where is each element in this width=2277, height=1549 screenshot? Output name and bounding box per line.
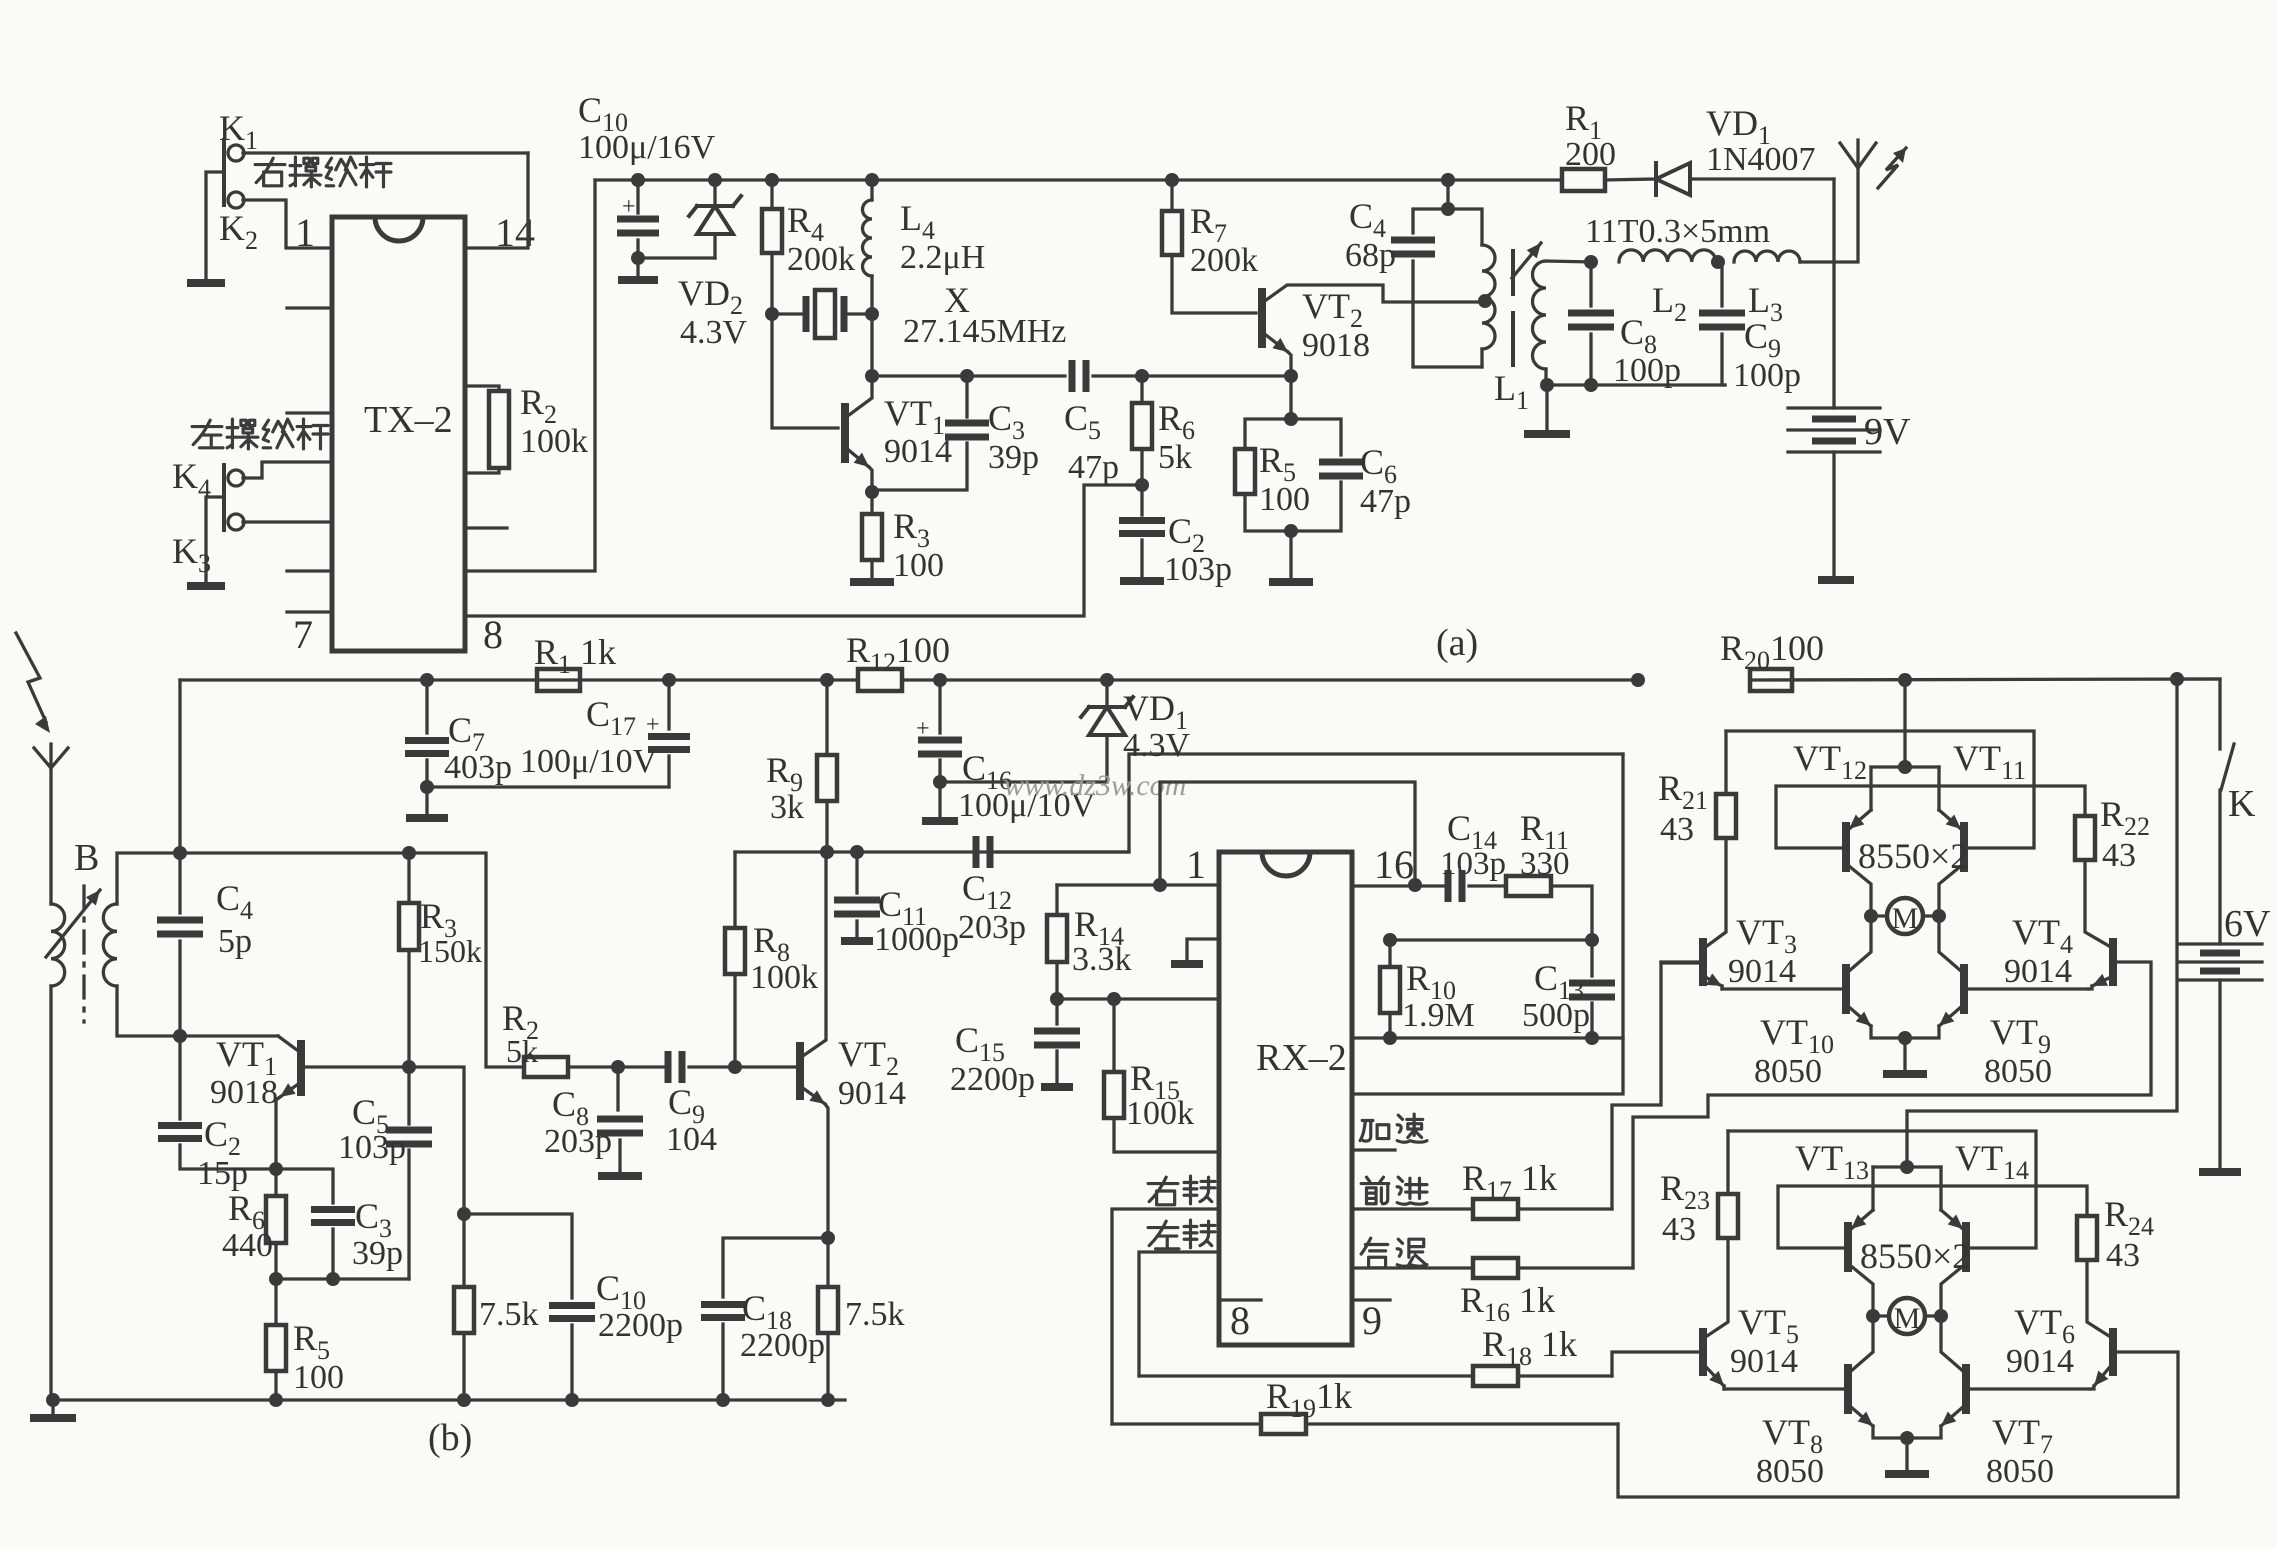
switch K [2177, 679, 2220, 749]
svg-text:R24: R24 [2104, 1194, 2154, 1241]
svg-text:C4: C4 [1349, 196, 1386, 243]
switch K1 [243, 151, 528, 154]
capacitor C2 15p (rx) [178, 1036, 181, 1119]
staircase R19 to VT6 base [1618, 1352, 2178, 1497]
transistor VT2 9018 (tx) [1258, 288, 1266, 348]
svg-text:1: 1 [295, 210, 315, 255]
resistor R17 1k + wire [1352, 1207, 1473, 1210]
loop wire right of RX-2 [1352, 754, 1623, 1094]
wire R14 bottom to RX-2 [1057, 997, 1219, 1000]
K1/K2 switch pole [222, 140, 226, 205]
svg-text:39p: 39p [352, 1235, 403, 1272]
svg-text:(b): (b) [428, 1417, 472, 1459]
svg-text:2.2μH: 2.2μH [900, 239, 985, 276]
resistor R6 5k [1135, 369, 1149, 383]
wire C7 to C17 bottom [427, 785, 669, 788]
TX-2 unused left pin stubs [287, 306, 332, 309]
transistor VT7 8050 [1962, 1364, 1970, 1414]
svg-text:+: + [916, 716, 930, 742]
ground (bridge) [1903, 1038, 1906, 1070]
wire C12 to RX-2 loop [997, 754, 1623, 852]
svg-text:103p: 103p [1164, 551, 1232, 588]
capacitor C11 1000p [850, 845, 864, 859]
transformer primary winding (osc coil) [1482, 245, 1495, 349]
svg-text:R2: R2 [520, 382, 557, 429]
svg-text:C4: C4 [216, 878, 253, 925]
svg-text:+: + [646, 712, 660, 738]
IC RX-2 [1219, 852, 1352, 1345]
svg-text:104: 104 [666, 1121, 717, 1158]
capacitor C6 47p [1291, 419, 1341, 455]
wire R4 node down to VT1 base [772, 314, 838, 428]
svg-text:K2: K2 [219, 208, 258, 255]
svg-text:8: 8 [483, 612, 503, 657]
svg-text:VT14: VT14 [1955, 1138, 2029, 1185]
secondary winding L1 [1533, 261, 1547, 369]
svg-text:9014: 9014 [2006, 1343, 2074, 1380]
resistor R9 3k [820, 673, 834, 687]
ground below C8 (rx) [598, 1172, 642, 1180]
transistor VT14 8550 [1962, 1222, 1970, 1272]
radiation arrow (tx antenna) [1878, 148, 1906, 188]
svg-text:VT10: VT10 [1760, 1012, 1834, 1059]
svg-text:VT3: VT3 [1736, 912, 1797, 959]
svg-text:L2: L2 [1652, 280, 1687, 327]
transistor VT8 8050 [1844, 1364, 1852, 1414]
svg-text:43: 43 [2102, 837, 2136, 874]
resistor R11 330 [1469, 884, 1506, 887]
svg-text:5k: 5k [506, 1033, 538, 1069]
pin 7 stub [287, 610, 332, 613]
svg-text:M: M [1892, 902, 1919, 935]
wire driver emitters to 8050 bases [1724, 1387, 1848, 1390]
wire C13/R10 bottom to RX-2 and loop [1352, 1036, 1623, 1039]
wire pole to ground [206, 172, 222, 280]
svg-text:100p: 100p [1613, 352, 1681, 389]
label 右转 (turn right) + pin wire [1148, 1177, 1178, 1205]
switch K3 [243, 520, 332, 523]
resistor R19 1k + wire [1112, 1422, 1261, 1425]
capacitor C8 100p (tx tank) [1584, 255, 1598, 269]
resistor R10 1.9M [1383, 933, 1397, 947]
svg-text:9014: 9014 [2004, 953, 2072, 990]
battery negative terminal bar [1818, 576, 1854, 584]
wire rail down to lower bridge [1907, 679, 2177, 1167]
svg-text:C17: C17 [586, 694, 636, 741]
line from tank top to R2 [180, 853, 524, 1067]
svg-text:8050: 8050 [1984, 1053, 2052, 1090]
motor M [1887, 898, 1923, 934]
svg-text:B: B [74, 837, 99, 879]
transistor VT9 8050 [1960, 964, 1968, 1014]
svg-text:68p: 68p [1345, 237, 1396, 274]
resistor R18 1k + wire [1139, 1374, 1473, 1377]
resistor R5 100 (tx) [1245, 419, 1291, 449]
resistor R5 100 (rx) [274, 1279, 277, 1325]
svg-text:47p: 47p [1360, 483, 1411, 520]
transformer B : tuned winding [103, 904, 117, 986]
ground (K1/K2 common) [187, 279, 225, 287]
svg-text:100k: 100k [520, 423, 588, 460]
svg-text:R3: R3 [893, 506, 930, 553]
inductor L3 [1734, 251, 1800, 262]
svg-text:8050: 8050 [1754, 1053, 1822, 1090]
capacitor C3 39p [960, 369, 974, 383]
capacitor C14 103p (series) [1448, 870, 1462, 902]
wire VT1 base to 7.5k [409, 1067, 464, 1214]
svg-text:5k: 5k [1158, 439, 1192, 476]
pin 1 wire / R14 node [1057, 883, 1219, 886]
svg-text:200: 200 [1565, 136, 1616, 173]
svg-text:R6: R6 [1158, 398, 1195, 445]
svg-text:R23: R23 [1660, 1168, 1710, 1215]
svg-text:R21: R21 [1658, 768, 1708, 815]
svg-text:43: 43 [1660, 811, 1694, 848]
svg-text:100k: 100k [1126, 1095, 1194, 1132]
wire rail down to B tank [178, 680, 181, 853]
svg-text:7.5k: 7.5k [845, 1296, 905, 1333]
svg-text:R5: R5 [293, 1318, 330, 1365]
svg-text:7: 7 [293, 612, 313, 657]
svg-text:9014: 9014 [1730, 1343, 1798, 1380]
svg-text:R18 1k: R18 1k [1482, 1324, 1577, 1371]
resistor R1 1k (rx, series in rail) [537, 669, 580, 691]
wire rail to upper bridge [1903, 680, 1906, 767]
wire driver emitters to 8050 bases [1722, 987, 1846, 990]
svg-text:100μ/16V: 100μ/16V [578, 129, 716, 166]
antenna (rx) [34, 744, 68, 768]
wire L3 to antenna [1800, 168, 1858, 262]
emitter to R5/C6 [1289, 376, 1292, 419]
svg-text:9018: 9018 [210, 1074, 278, 1111]
svg-text:2200p: 2200p [950, 1061, 1035, 1098]
K3/K4 switch pole [222, 465, 226, 530]
svg-text:R20100: R20100 [1720, 628, 1824, 675]
svg-text:2200p: 2200p [740, 1327, 825, 1364]
cross-coupling wires [1728, 1131, 2036, 1248]
svg-text:103p: 103p [338, 1129, 406, 1166]
resistor R22 43 [2075, 816, 2095, 860]
resistor R14 3.3k [1055, 885, 1058, 915]
svg-text:+: + [622, 194, 636, 220]
svg-text:R4: R4 [787, 200, 824, 247]
wire emitter header [1871, 765, 1939, 768]
pin 9 stub [1352, 1298, 1390, 1301]
capacitor C12 203p (series) [976, 836, 990, 868]
svg-text:7.5k: 7.5k [479, 1296, 539, 1333]
staircase R16 to VT4 base [1633, 962, 2151, 1268]
svg-text:15p: 15p [197, 1155, 248, 1192]
capacitor C9 100p (tx) [1711, 255, 1725, 269]
ground (K3/K4 common) [187, 582, 225, 590]
svg-text:9014: 9014 [1728, 953, 1796, 990]
battery 6V [2178, 942, 2262, 945]
resistor R24 43 [2077, 1216, 2097, 1260]
svg-text:R22: R22 [2100, 794, 2150, 841]
svg-text:VT9: VT9 [1990, 1012, 2051, 1059]
svg-text:440: 440 [222, 1227, 273, 1264]
svg-text:203p: 203p [958, 909, 1026, 946]
svg-text:5p: 5p [218, 923, 252, 960]
capacitor C10 100u/16V [631, 173, 645, 187]
battery negative bar (6V) [2199, 1168, 2241, 1176]
svg-text:VT2: VT2 [1302, 286, 1363, 333]
wire C10 to VD2 [638, 256, 715, 259]
zener VD1 4.3V (rx) [1100, 673, 1114, 687]
svg-text:4.3V: 4.3V [1123, 727, 1191, 764]
svg-text:9V: 9V [1864, 411, 1911, 453]
svg-text:8550×2: 8550×2 [1858, 836, 1968, 876]
pin 8 wire to R6/C2 node [466, 485, 1140, 616]
resistor R23 43 [1718, 1194, 1738, 1238]
capacitor C10 2200p (rx) [464, 1214, 572, 1298]
battery 9V [1788, 406, 1880, 409]
resistor R7 200k [1165, 173, 1179, 187]
svg-text:VT11: VT11 [1953, 738, 2026, 785]
pin 16 wire [1352, 884, 1448, 887]
transistor VT1 9018 (rx) [297, 1040, 305, 1096]
capacitor C4 68p with primary loop [1441, 173, 1455, 187]
antenna (tx) [1840, 140, 1876, 168]
svg-text:C3: C3 [988, 398, 1025, 445]
cross-coupling wires [1726, 731, 2034, 848]
wire tank to VT1 base (rx) [180, 1034, 278, 1037]
capacitor C4 5p (rx) [173, 846, 187, 860]
svg-text:2200p: 2200p [598, 1307, 683, 1344]
staircase R17 to VT3 base [1612, 963, 1699, 1209]
transistor VT13 8550 [1844, 1222, 1852, 1272]
svg-text:3.3k: 3.3k [1072, 941, 1132, 978]
resistor R3 150k [402, 846, 416, 860]
jumper pin1 area to pin16 node [1160, 782, 1415, 885]
svg-text:R1 1k: R1 1k [534, 632, 616, 679]
resistor R1 200 (tx, series in rail) [1441, 173, 1455, 187]
inductor L4 2.2uH [865, 173, 879, 187]
crystal X 27.145MHz [765, 307, 779, 321]
svg-text:1000p: 1000p [874, 921, 959, 958]
svg-text:39p: 39p [988, 439, 1039, 476]
pin 14 wire to K1 [466, 153, 528, 248]
svg-text:L4: L4 [900, 198, 935, 245]
svg-text:43: 43 [2106, 1237, 2140, 1274]
transformer B : antenna winding [51, 904, 65, 986]
resistor R2 5k (rx) [524, 1057, 568, 1077]
adjustable core of L1 [1511, 251, 1515, 365]
node bridge supply [1898, 760, 1912, 774]
transistor VT4 9014 [2109, 938, 2117, 986]
capacitor C2 103p [1135, 478, 1149, 492]
resistor 7.5k (first) [462, 1214, 465, 1287]
svg-text:9: 9 [1362, 1298, 1382, 1343]
svg-text:VT5: VT5 [1738, 1302, 1799, 1349]
core (dash-dot) of B [82, 886, 85, 1022]
svg-text:9018: 9018 [1302, 327, 1370, 364]
wire emitter header [1873, 1165, 1941, 1168]
resistor R4 200k [765, 173, 779, 187]
resistor R20 100 (series in rail) [1631, 673, 1645, 687]
svg-text:47p: 47p [1068, 449, 1119, 486]
receiver top rail [180, 678, 858, 681]
motor M [1889, 1298, 1925, 1334]
svg-text:R191k: R191k [1266, 1376, 1352, 1423]
capacitor C13 500p [1585, 933, 1599, 947]
svg-text:C6: C6 [1360, 442, 1397, 489]
zener VD2 4.3V [708, 173, 722, 187]
ground below L1 [1524, 430, 1570, 438]
collector line node (rx VT2) [820, 845, 834, 859]
ground (bridge) [1905, 1438, 1908, 1470]
capacitor C9 104 (rx, series) [618, 1065, 668, 1068]
svg-text:6V: 6V [2224, 903, 2271, 945]
svg-text:R7: R7 [1190, 201, 1227, 248]
svg-text:L1: L1 [1494, 368, 1529, 415]
ground below R5/C6 [1269, 578, 1313, 586]
svg-text:103p: 103p [1440, 846, 1506, 882]
svg-text:100p: 100p [1733, 357, 1801, 394]
svg-text:C15: C15 [955, 1020, 1005, 1067]
svg-text:203p: 203p [544, 1123, 612, 1160]
capacitor C5 47p (series) [1072, 360, 1086, 392]
svg-text:3k: 3k [770, 789, 804, 826]
capacitor C7 403p [420, 673, 434, 687]
transistor VT6 9014 [2109, 1328, 2117, 1376]
capacitor C3 39p (rx) [276, 1169, 333, 1203]
wire pole to ground [206, 497, 222, 583]
svg-text:1.9M: 1.9M [1402, 997, 1475, 1034]
svg-text:8: 8 [1230, 1298, 1250, 1343]
svg-text:VT4: VT4 [2012, 912, 2073, 959]
wire C5/R6 node to VT2 emitter [1142, 374, 1291, 377]
resistor R12 100 (series in rail) [858, 669, 902, 691]
svg-text:1N4007: 1N4007 [1706, 141, 1816, 178]
resistor R3 100 [870, 492, 873, 514]
node bridge supply [1900, 1160, 1914, 1174]
svg-text:M: M [1894, 1302, 1921, 1335]
svg-text:11T0.3×5mm: 11T0.3×5mm [1585, 213, 1770, 250]
receiver ground rail [53, 1398, 845, 1401]
collector line to C5 [872, 374, 1065, 377]
label 后退 (backward) + pin wire [1361, 1238, 1388, 1268]
resistor R16 1k + wire [1352, 1266, 1473, 1269]
pin 8 stub (rx) [1223, 1298, 1261, 1301]
svg-text:16: 16 [1374, 842, 1414, 887]
capacitor C16 100u/10V [933, 673, 947, 687]
grounded pin stub (rx) [1187, 939, 1219, 962]
svg-text:VT2: VT2 [838, 1034, 899, 1081]
diode VD1 1N4007 [1654, 163, 1658, 195]
svg-text:8050: 8050 [1756, 1453, 1824, 1490]
svg-text:C2: C2 [204, 1114, 241, 1161]
transistor VT10 8050 [1842, 964, 1850, 1014]
svg-text:L3: L3 [1748, 280, 1783, 327]
svg-text:100μ/10V: 100μ/10V [520, 743, 658, 780]
transistor VT1 9014 (tx) [841, 403, 849, 463]
svg-text:500p: 500p [1522, 997, 1590, 1034]
svg-text:200k: 200k [1190, 242, 1258, 279]
label 左操纵杆 (left control stick) [192, 420, 223, 448]
svg-text:100: 100 [1259, 481, 1310, 518]
svg-text:K: K [2228, 783, 2256, 825]
svg-text:VT7: VT7 [1992, 1412, 2053, 1459]
svg-text:9014: 9014 [838, 1075, 906, 1112]
wire collectors to motor [1851, 1266, 1873, 1316]
staircase R18 to VT5 base [1612, 1352, 1699, 1376]
resistor R21 43 [1716, 794, 1736, 838]
resistor R15 100k [1107, 992, 1121, 1006]
base line (rx VT1) [301, 1065, 409, 1068]
svg-text:9014: 9014 [884, 433, 952, 470]
svg-text:VT12: VT12 [1793, 738, 1867, 785]
transistor VT5 9014 [1699, 1328, 1707, 1376]
svg-text:1: 1 [1186, 842, 1206, 887]
capacitor C17 100u/10V [662, 673, 676, 687]
svg-text:C12: C12 [962, 868, 1012, 915]
capacitor C15 2200p [1055, 999, 1058, 1024]
transistor VT3 9014 [1699, 938, 1707, 986]
lightning arrow (rx antenna) [16, 633, 46, 722]
resistor R2 [466, 386, 499, 391]
svg-text:27.145MHz: 27.145MHz [903, 313, 1066, 350]
transistor VT2 9014 (rx) [796, 1042, 804, 1100]
resistor R8 100k [725, 928, 745, 974]
resistor R6 440 [274, 1169, 277, 1196]
svg-text:8550×2: 8550×2 [1860, 1236, 1970, 1276]
wire rail to battery [1832, 179, 1835, 408]
svg-text:150k: 150k [418, 933, 482, 969]
svg-text:8050: 8050 [1986, 1453, 2054, 1490]
transistor VT12 8550 [1842, 822, 1850, 872]
svg-text:VT8: VT8 [1762, 1412, 1823, 1459]
capacitor C8 203p (rx) [611, 1060, 625, 1074]
TX-2 right stub [466, 526, 507, 529]
svg-text:200k: 200k [787, 241, 855, 278]
svg-text:TX–2: TX–2 [364, 399, 453, 441]
capacitor C5 103p (rx) [407, 1067, 410, 1124]
svg-text:C5: C5 [1064, 398, 1101, 445]
wire TX-2 Vdd pin to top rail [466, 180, 595, 571]
switch K4 [243, 462, 332, 478]
wire collectors to motor [1849, 866, 1871, 916]
primary center tap to VT2 collector [1478, 294, 1492, 308]
svg-text:100k: 100k [750, 959, 818, 996]
svg-text:R16 1k: R16 1k [1460, 1280, 1555, 1327]
wire C16 to VD1 anode [940, 780, 1107, 783]
svg-text:VD2: VD2 [678, 273, 743, 320]
svg-text:100: 100 [293, 1359, 344, 1396]
IC TX-2 [332, 217, 465, 651]
switch K2 [243, 200, 332, 248]
top supply rail (transmitter) [595, 178, 1562, 181]
svg-text:4.3V: 4.3V [680, 314, 748, 351]
svg-text:100: 100 [893, 547, 944, 584]
svg-text:RX–2: RX–2 [1256, 1037, 1347, 1079]
adjustable core arrow (B) [46, 890, 100, 957]
label 右操纵杆 (right control stick) [255, 158, 285, 186]
svg-text:R12100: R12100 [846, 630, 950, 677]
label 左转 (turn left) + pin wire [1148, 1221, 1179, 1249]
svg-text:R17 1k: R17 1k [1462, 1158, 1557, 1205]
inductor L2 [1619, 250, 1716, 262]
svg-text:330: 330 [1520, 846, 1570, 882]
svg-text:403p: 403p [444, 749, 512, 786]
svg-text:VT13: VT13 [1795, 1138, 1869, 1185]
label 加速 (accelerate) pin stub [1352, 1148, 1395, 1151]
resistor 7.5k (second) [826, 1238, 829, 1287]
label 前进 (forward) + pin wire [1361, 1177, 1389, 1204]
svg-text:R5: R5 [1259, 440, 1296, 487]
svg-text:43: 43 [1662, 1211, 1696, 1248]
svg-text:VT6: VT6 [2014, 1302, 2075, 1349]
